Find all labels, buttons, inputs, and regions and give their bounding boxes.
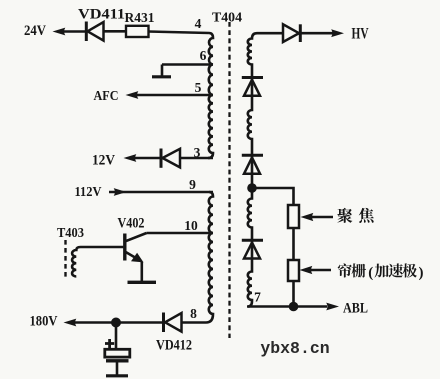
diode VD412 (164, 313, 207, 333)
diode secondary D-B (242, 155, 263, 174)
wire collector to pin 10 (147, 232, 214, 235)
svg-text:9: 9 (189, 177, 196, 192)
diode pin 3 (161, 149, 213, 168)
capacitor electrolytic (105, 323, 130, 375)
svg-text:HV: HV (352, 26, 369, 43)
svg-text:(: ( (368, 265, 373, 281)
svg-text:V402: V402 (118, 216, 145, 232)
svg-text:5: 5 (195, 80, 202, 95)
transformer T404 secondary winding (248, 33, 257, 306)
wire node to focus branch (252, 188, 294, 205)
svg-text:6: 6 (200, 48, 207, 63)
wire 12V arrow to diode (124, 154, 162, 162)
node junction 180V-capacitor (111, 318, 121, 328)
wire pin 7 to ABL (247, 305, 327, 308)
wire focus to screen resistor (292, 228, 295, 260)
resistor R431 (126, 26, 149, 37)
capacitor C polarity plus (105, 339, 114, 348)
svg-text:VD412: VD412 (156, 338, 192, 354)
wire HV output with arrow (300, 29, 344, 37)
svg-text:R431: R431 (125, 11, 155, 26)
svg-text:ABL: ABL (343, 301, 368, 317)
label focus (337, 208, 374, 223)
transformer T404 primary winding top (pins 4-6-5-3) (208, 33, 213, 158)
arrow focus adjust (301, 213, 334, 221)
svg-text:7: 7 (254, 290, 261, 305)
svg-text:12V: 12V (92, 153, 115, 169)
diode secondary D-C (242, 240, 263, 258)
svg-text:8: 8 (190, 306, 197, 321)
svg-text:10: 10 (184, 218, 198, 233)
svg-text:T404: T404 (212, 11, 242, 26)
svg-text:4: 4 (195, 16, 202, 31)
diode VD411 (86, 22, 126, 42)
svg-text:AFC: AFC (94, 89, 119, 104)
wire HV to diode (257, 32, 283, 35)
wire AFC pin 5 with arrow (126, 91, 214, 99)
wire R431 to pin 4 (149, 32, 210, 34)
svg-text:ybx8.cn: ybx8.cn (260, 339, 329, 358)
ground capacitor (106, 374, 128, 377)
transformer T403 core dashed line (64, 240, 66, 280)
transformer T403 winding (72, 247, 80, 277)
wire base V402 (81, 246, 124, 249)
svg-text:T403: T403 (57, 226, 84, 241)
diode secondary D-A (242, 78, 263, 96)
wire 24V output with arrow (53, 28, 88, 36)
svg-text:24V: 24V (24, 23, 46, 39)
diode HV rectifier (283, 24, 300, 42)
resistor focus potentiometer (288, 205, 299, 228)
svg-text:3: 3 (194, 145, 201, 160)
transformer core dashed line (228, 22, 230, 338)
transistor V402 (125, 233, 147, 281)
arrow ABL output (326, 303, 339, 311)
arrow screen adjust (300, 266, 332, 274)
node junction ABL (289, 302, 299, 312)
wire 180V with arrow (64, 319, 164, 327)
wire pin 6 (162, 63, 213, 66)
wire screen resistor to ABL node (292, 281, 295, 307)
ground emitter V402 (128, 281, 157, 284)
svg-text:112V: 112V (75, 185, 102, 200)
svg-text:180V: 180V (30, 314, 58, 330)
svg-text:): ) (419, 265, 424, 281)
ground pin 6 (152, 65, 171, 77)
transformer T404 primary winding bottom (pins 9-10-8) (206, 192, 213, 323)
label screen grid (338, 263, 417, 277)
resistor screen potentiometer (288, 260, 299, 281)
svg-text:VD411: VD411 (78, 7, 125, 23)
node junction secondary-focus branch (247, 183, 257, 193)
wire 112V pin 9 with arrow (109, 188, 213, 196)
